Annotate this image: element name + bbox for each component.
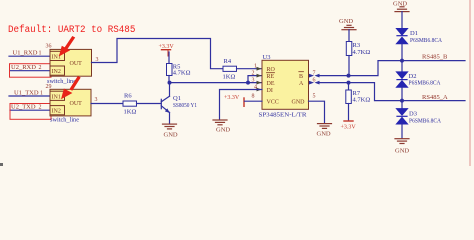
ground (Q1 emitter): [163, 124, 177, 129]
pin glyph arrows (I/O pins 6,7): [309, 74, 320, 85]
svg-text:R4: R4: [224, 58, 232, 65]
svg-text:5: 5: [313, 94, 316, 100]
svg-text:RS485_B: RS485_B: [422, 54, 448, 61]
Q1 emitter arrow: [165, 108, 170, 113]
svg-text:U1_TXD: U1_TXD: [14, 90, 39, 97]
svg-text:GND: GND: [317, 131, 331, 138]
wire U1_TXD to IN1: [9, 95, 50, 97]
svg-text:U1_RXD: U1_RXD: [13, 50, 38, 57]
svg-text:P6SMB6.8CA: P6SMB6.8CA: [409, 79, 441, 86]
wire SW1 OUT to R4 (via top rail): [92, 39, 224, 69]
wire R3 to B line: [348, 56, 350, 76]
red highlight box around U2_RXD: [10, 64, 52, 77]
svg-text:8: 8: [252, 94, 255, 100]
svg-text:1KΩ: 1KΩ: [223, 74, 236, 81]
svg-text:SP3485EN-L/TR: SP3485EN-L/TR: [259, 112, 308, 119]
svg-text:GND: GND: [292, 100, 306, 106]
wire U1_RXD to IN1: [9, 55, 50, 57]
TVS diode D2: [396, 72, 408, 88]
wire U2_RXD to IN2: [10, 70, 50, 72]
svg-text:A: A: [299, 81, 304, 87]
analog switch SW1 (RXD mux): [50, 49, 92, 76]
resistor R7: [346, 90, 352, 104]
red arrow annotation 1: [59, 36, 75, 57]
wire +3.3V to VCC: [245, 100, 263, 102]
ground (pin 5): [318, 124, 332, 129]
ground (top right, inverted): [393, 1, 409, 12]
svg-text:OUT: OUT: [70, 61, 83, 67]
svg-text:GND: GND: [339, 18, 353, 25]
wire branch to RE (pin 2): [248, 76, 262, 83]
junction node (RE/DE tie): [246, 81, 250, 85]
transistor Q1 SS8050: [161, 96, 169, 112]
wire D3 to ground: [401, 124, 403, 138]
junction node (R3/B): [347, 74, 351, 78]
wire R4 to RO (pin 1): [237, 68, 263, 70]
wire SW2 OUT to R6: [91, 103, 123, 105]
wire ground to D1: [401, 12, 403, 29]
svg-text:29: 29: [46, 84, 52, 90]
svg-text:+3.3V: +3.3V: [224, 95, 240, 101]
svg-text:RO: RO: [267, 67, 276, 73]
analog switch SW2 (TXD mux): [50, 89, 91, 116]
resistor R5: [167, 64, 173, 76]
power port +3.3V (below R7): [341, 121, 357, 131]
svg-text:GND: GND: [395, 148, 409, 155]
svg-text:RS485_A: RS485_A: [422, 94, 448, 101]
svg-text:VCC: VCC: [267, 100, 279, 106]
svg-text:DI: DI: [267, 88, 273, 94]
svg-text:4.7KΩ: 4.7KΩ: [353, 97, 371, 104]
svg-text:4.7KΩ: 4.7KΩ: [353, 49, 371, 56]
svg-text:P6SMB6.8CA: P6SMB6.8CA: [410, 37, 442, 44]
svg-text:GND: GND: [164, 132, 178, 139]
wire A line to R7: [348, 83, 350, 90]
pin glyph arrows (input pins 1-4): [257, 67, 262, 92]
svg-text:1KΩ: 1KΩ: [124, 109, 137, 116]
resistor R6: [123, 101, 137, 106]
svg-text:2: 2: [39, 65, 42, 71]
svg-text:U3: U3: [263, 54, 271, 61]
wire +3.3V to R5: [168, 52, 170, 64]
junction node (D2-D3/A): [400, 99, 404, 103]
resistor R4: [223, 66, 237, 71]
svg-text:4.7KΩ: 4.7KΩ: [173, 70, 191, 77]
wire ground to R3: [348, 30, 350, 42]
svg-text:36: 36: [46, 44, 52, 50]
power port +3.3V (VCC pin 8): [224, 95, 244, 106]
wire node to DE (pin 3): [170, 82, 263, 84]
TVS diode D1: [396, 28, 408, 44]
svg-text:U2_RXD: U2_RXD: [11, 64, 36, 71]
wire R7 to +3.3V: [348, 104, 350, 121]
svg-text:3: 3: [252, 78, 255, 84]
svg-text:SS8050 Y1: SS8050 Y1: [173, 102, 197, 109]
ground (above R3, inverted): [339, 18, 356, 30]
svg-text:1: 1: [40, 91, 43, 97]
svg-text:switch_line: switch_line: [50, 116, 79, 123]
wire D2 to A line: [401, 87, 403, 100]
wire A (pin 6) to RS485_A: [320, 83, 465, 101]
svg-text:IN2: IN2: [52, 109, 61, 115]
wire B (pin 7) to RS485_B: [320, 61, 465, 76]
svg-text:DE: DE: [267, 81, 275, 87]
svg-text:Q1: Q1: [173, 95, 181, 102]
junction node (R7/A): [347, 81, 351, 85]
wire R5 to collector node: [168, 76, 170, 83]
wire D1 to B line: [401, 44, 403, 61]
red arrow annotation 2: [61, 76, 81, 99]
wire A line to D3: [401, 101, 403, 109]
red highlight box around U2_TXD: [10, 104, 51, 120]
wire GND (pin 5) to ground: [309, 101, 325, 123]
svg-text:OUT: OUT: [70, 101, 83, 107]
svg-text:2: 2: [252, 71, 255, 77]
svg-text:2: 2: [39, 105, 42, 111]
ground (bottom right): [395, 139, 409, 144]
junction node (D1-D2/B): [400, 59, 404, 63]
svg-text:IN2: IN2: [52, 69, 61, 75]
wire U2_TXD to IN2: [10, 109, 50, 111]
resistor R3: [346, 42, 352, 56]
svg-text:U2_TXD: U2_TXD: [11, 104, 36, 111]
svg-text:B: B: [299, 74, 303, 80]
svg-text:P6SMB6.8CA: P6SMB6.8CA: [409, 117, 441, 124]
wire DI (pin 4) to ground: [220, 90, 263, 120]
sheet corner mark: [0, 163, 3, 166]
sheet border line (right): [469, 0, 471, 166]
svg-text:GND: GND: [216, 127, 230, 134]
svg-text:IN1: IN1: [52, 94, 61, 100]
junction node (R5/Q1/DE): [168, 81, 172, 85]
op IC U3 SP3485 body: [262, 60, 309, 109]
wire R6 to Q1 base: [137, 103, 162, 105]
wire emitter to ground: [169, 113, 171, 124]
svg-text:RE: RE: [267, 74, 275, 80]
svg-text:Default: UART2 to RS485: Default: UART2 to RS485: [8, 24, 135, 36]
wire B line to D2: [401, 61, 403, 72]
svg-text:R6: R6: [124, 93, 132, 100]
ground (DI): [213, 120, 227, 125]
TVS diode D3: [396, 109, 408, 125]
svg-text:R3: R3: [353, 42, 361, 49]
wire collector to node: [169, 83, 171, 97]
power port +3.3V (above R5): [159, 44, 175, 56]
svg-text:3: 3: [95, 97, 98, 103]
svg-text:+3.3V: +3.3V: [341, 125, 357, 131]
svg-text:1: 1: [39, 51, 42, 57]
